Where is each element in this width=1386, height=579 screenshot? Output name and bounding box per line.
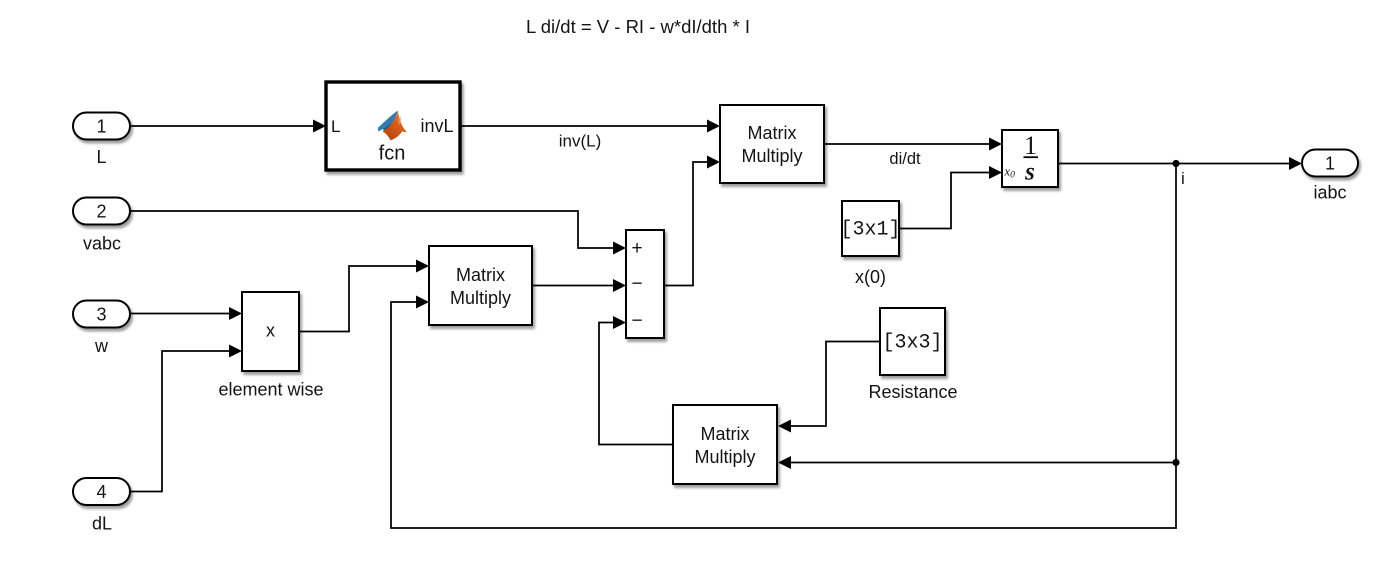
svg-text:x(0): x(0) xyxy=(855,267,886,287)
wire inport3 to product xyxy=(131,307,242,320)
constant [3x3] Resistance xyxy=(868,308,957,402)
svg-text:w: w xyxy=(94,336,109,356)
wire [3x3] to matrix multiply bottom xyxy=(778,342,880,433)
svg-text:Matrix: Matrix xyxy=(748,123,797,143)
svg-text:s: s xyxy=(1024,159,1035,186)
inport 4 dL xyxy=(73,478,130,534)
svg-text:L: L xyxy=(331,117,340,136)
MATLAB function block U:fcn xyxy=(326,82,460,170)
svg-text:1: 1 xyxy=(1325,154,1335,174)
inport 3 w xyxy=(73,301,130,357)
constant [3x1] x(0) xyxy=(840,201,900,287)
svg-text:Matrix: Matrix xyxy=(456,265,505,285)
wire [3x1] to integrator x0 xyxy=(899,166,1002,229)
svg-text:Multiply: Multiply xyxy=(694,447,755,467)
svg-text:Matrix: Matrix xyxy=(701,424,750,444)
svg-text:3: 3 xyxy=(96,305,106,325)
svg-text:iabc: iabc xyxy=(1313,183,1346,203)
sum block xyxy=(626,230,664,338)
outport 1 iabc xyxy=(1302,150,1358,203)
svg-text:2: 2 xyxy=(96,202,106,222)
svg-text:Multiply: Multiply xyxy=(450,288,511,308)
matrix multiply mid xyxy=(429,246,532,325)
matrix multiply 1 (top) xyxy=(720,105,824,183)
inport 1 L xyxy=(73,113,130,168)
wire matrix multiply 1 to integrator, label di/dt xyxy=(824,138,1002,169)
svg-text:1: 1 xyxy=(96,117,106,137)
wire integrator to outport, node i xyxy=(1058,157,1302,188)
svg-text:[3x1]: [3x1] xyxy=(840,219,900,242)
branch wire i to matrix multiply bottom xyxy=(778,456,1176,469)
inport 2 vabc xyxy=(73,198,130,254)
wire matrix multiply bottom to sum minus2 xyxy=(599,316,673,445)
svg-text:−: − xyxy=(631,274,642,295)
svg-text:4: 4 xyxy=(96,482,106,502)
svg-text:L di/dt = V - RI - w*dI/dth *: L di/dt = V - RI - w*dI/dth * I xyxy=(526,16,750,37)
svg-text:[3x3]: [3x3] xyxy=(882,332,942,355)
wire sum to matrix multiply 1 xyxy=(664,156,720,286)
svg-text:inv(L): inv(L) xyxy=(559,132,602,151)
svg-text:−: − xyxy=(631,311,642,332)
wire fcn to matrix multiply 1, label inv(L) xyxy=(460,120,720,151)
svg-text:di/dt: di/dt xyxy=(889,150,921,168)
matrix multiply bottom (flipped) xyxy=(673,405,777,484)
svg-text:Resistance: Resistance xyxy=(868,382,957,402)
svg-text:i: i xyxy=(1181,169,1185,188)
wire inport2 to sum plus xyxy=(130,211,626,255)
svg-text:vabc: vabc xyxy=(83,234,121,254)
svg-text:+: + xyxy=(631,238,642,259)
svg-text:fcn: fcn xyxy=(379,143,406,165)
wire inport4 to product xyxy=(130,345,242,492)
MATLAB membrane logo xyxy=(378,111,407,141)
wire inport1 to fcn xyxy=(130,120,326,133)
feedback wire i to matrix multiply mid xyxy=(391,164,1180,529)
integrator 1/s xyxy=(1002,130,1058,187)
svg-text:1: 1 xyxy=(1024,131,1037,160)
svg-text:element wise: element wise xyxy=(218,380,323,400)
svg-text:invL: invL xyxy=(420,116,453,136)
product block x (element wise) xyxy=(218,292,323,400)
wire product to matrix multiply mid xyxy=(299,260,429,332)
svg-text:L: L xyxy=(96,147,106,167)
svg-text:dL: dL xyxy=(92,514,112,534)
svg-text:Multiply: Multiply xyxy=(741,146,802,166)
svg-text:x: x xyxy=(266,321,275,341)
wire matrix multiply mid to sum minus1 xyxy=(532,279,626,292)
